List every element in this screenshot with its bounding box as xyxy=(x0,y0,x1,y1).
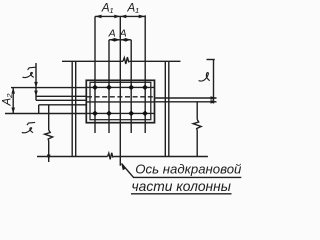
svg-text:A₁: A₁ xyxy=(101,0,114,14)
svg-text:A₂: A₂ xyxy=(1,93,13,107)
svg-text:A: A xyxy=(108,28,116,40)
svg-text:A₁: A₁ xyxy=(126,0,139,14)
svg-text:A: A xyxy=(119,28,127,40)
svg-text:части колонны: части колонны xyxy=(132,179,231,194)
svg-text:Ось надкрановой: Ось надкрановой xyxy=(135,162,242,177)
